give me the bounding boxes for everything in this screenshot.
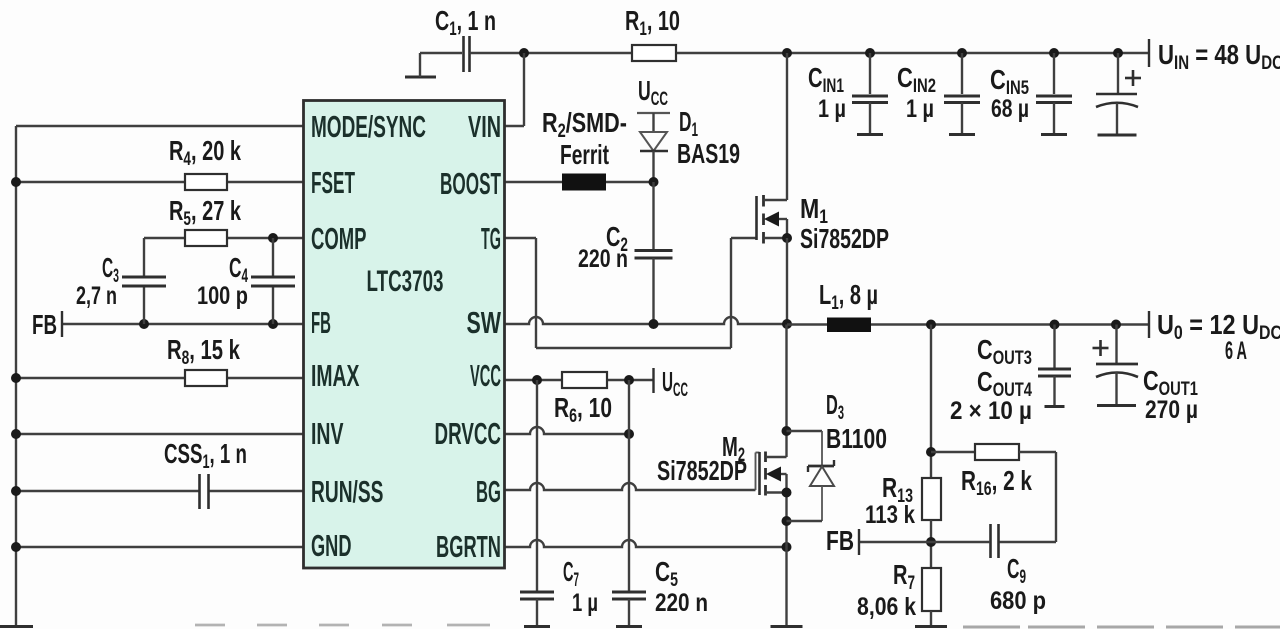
svg-text:BAS19: BAS19 (677, 139, 740, 170)
svg-text:INV: INV (311, 418, 344, 452)
svg-text:B1100: B1100 (826, 424, 887, 454)
svg-text:RUN/SS: RUN/SS (311, 476, 383, 510)
svg-text:GND: GND (311, 529, 351, 563)
svg-text:R8​, 15 k: R8​, 15 k (167, 335, 240, 369)
svg-text:6 A: 6 A (1225, 338, 1247, 365)
svg-text:1 µ: 1 µ (572, 588, 598, 616)
svg-text:R5​, 27 k: R5​, 27 k (169, 196, 241, 230)
svg-text:VIN: VIN (468, 108, 501, 144)
svg-text:IMAX: IMAX (311, 360, 360, 394)
svg-text:100 p: 100 p (197, 282, 248, 310)
svg-text:1 µ: 1 µ (906, 95, 934, 123)
svg-text:R4​, 20 k: R4​, 20 k (169, 136, 241, 170)
svg-text:270 µ: 270 µ (1145, 395, 1198, 423)
svg-text:68 µ: 68 µ (991, 95, 1029, 123)
svg-text:FSET: FSET (311, 166, 355, 201)
svg-text:MODE/SYNC: MODE/SYNC (311, 110, 426, 144)
svg-text:2 × 10 µ: 2 × 10 µ (950, 398, 1032, 425)
svg-text:BOOST: BOOST (440, 167, 501, 202)
svg-text:220 n: 220 n (578, 245, 628, 273)
svg-text:SW: SW (467, 305, 502, 340)
svg-text:L1​, 8 µ: L1​, 8 µ (819, 280, 878, 314)
svg-text:BG: BG (476, 475, 501, 510)
svg-text:Si7852DP: Si7852DP (800, 224, 889, 255)
svg-text:Si7852DP: Si7852DP (657, 456, 747, 487)
svg-text:8,06 k: 8,06 k (857, 592, 916, 620)
svg-text:2,7 n: 2,7 n (76, 281, 117, 310)
svg-text:TG: TG (481, 222, 501, 257)
svg-text:BGRTN: BGRTN (436, 530, 501, 564)
svg-text:VCC: VCC (470, 359, 501, 394)
svg-text:1 µ: 1 µ (818, 95, 846, 123)
svg-text:R1​, 10: R1​, 10 (625, 6, 680, 40)
svg-text:FB: FB (311, 306, 331, 340)
svg-text:Ferrit: Ferrit (560, 139, 609, 171)
svg-text:LTC3703: LTC3703 (367, 265, 444, 299)
svg-text:DRVCC: DRVCC (435, 417, 501, 451)
svg-text:680 p: 680 p (990, 587, 1046, 615)
svg-text:R6​, 10: R6​, 10 (554, 393, 612, 426)
svg-text:220 n: 220 n (655, 588, 708, 616)
svg-text:R2​/SMD-: R2​/SMD- (542, 107, 627, 141)
svg-text:C1​, 1 n: C1​, 1 n (435, 6, 496, 40)
svg-text:R16​, 2 k: R16​, 2 k (961, 466, 1032, 499)
svg-text:FB: FB (826, 526, 854, 557)
svg-text:FB: FB (32, 309, 57, 341)
svg-text:COMP: COMP (311, 222, 366, 256)
svg-text:113 k: 113 k (865, 500, 915, 528)
